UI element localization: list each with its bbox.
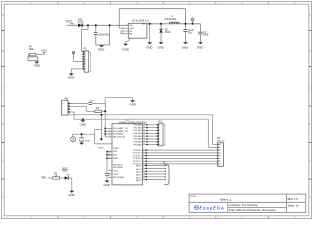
svg-text:NRST: NRST: [113, 158, 119, 160]
svg-text:270uH/1R4: 270uH/1R4: [164, 18, 177, 21]
svg-text:PV0.RA0: PV0.RA0: [133, 124, 142, 127]
svg-text:PV7.RA7: PV7.RA7: [133, 143, 142, 146]
svg-text:14: 14: [143, 126, 145, 128]
svg-text:17: 17: [143, 135, 145, 137]
svg-text:TITLE:: TITLE:: [190, 196, 197, 198]
svg-text:C: C: [2, 86, 4, 90]
svg-text:GND: GND: [157, 46, 163, 50]
svg-text:ADC5: ADC5: [136, 179, 142, 182]
svg-text:ADC2: ADC2: [136, 171, 142, 174]
svg-text:GND: GND: [103, 183, 109, 187]
svg-text:PB4 (SCL): PB4 (SCL): [113, 164, 123, 166]
svg-text:12: 12: [143, 178, 145, 180]
svg-text:5: 5: [123, 30, 124, 32]
svg-text:VCAP: VCAP: [113, 147, 119, 150]
svg-text:VCC: VCC: [66, 20, 73, 24]
svg-text:10uF: 10uF: [203, 34, 209, 37]
svg-text:GND: GND: [80, 122, 86, 126]
svg-text:GND: GND: [99, 148, 104, 150]
svg-text:PD5 (UART_RX): PD5 (UART_RX): [113, 130, 128, 133]
svg-text:VCC: VCC: [107, 151, 112, 153]
svg-text:19: 19: [143, 140, 145, 142]
svg-text:B: B: [2, 49, 4, 53]
svg-text:PV5.RA5: PV5.RA5: [133, 138, 142, 141]
svg-text:PV4.RA4: PV4.RA4: [133, 135, 142, 138]
svg-text:Date: 2021-02-03 Drawn By:: Date: 2021-02-03 Drawn By: eikemerging: [229, 209, 276, 212]
svg-text:GND: GND: [68, 76, 74, 80]
svg-text:PC2.RC2: PC2.RC2: [133, 155, 142, 157]
svg-text:PV6.RA6: PV6.RA6: [133, 141, 142, 144]
svg-text:VSS: VSS: [113, 155, 118, 157]
svg-text:OSC1: OSC1: [113, 170, 119, 172]
svg-text:SS34: SS34: [165, 31, 172, 34]
svg-text:Sheet_1: Sheet_1: [220, 197, 232, 201]
svg-text:GND: GND: [129, 102, 135, 106]
svg-text:VDD: VDD: [113, 151, 118, 153]
svg-text:B: B: [309, 49, 311, 53]
svg-text:E: E: [2, 159, 4, 163]
svg-text:SW: SW: [142, 24, 145, 26]
svg-text:U2 XL1509-5.0: U2 XL1509-5.0: [132, 20, 149, 23]
svg-text:PB7 (SWIM): PB7 (SWIM): [113, 177, 124, 179]
svg-text:PV1.RA1: PV1.RA1: [133, 126, 142, 129]
svg-text:11: 11: [143, 175, 145, 177]
svg-text:A: A: [309, 13, 311, 17]
svg-text:PA1 (OSCIN): PA1 (OSCIN): [113, 136, 125, 139]
svg-text:PC3.RC3: PC3.RC3: [133, 158, 142, 160]
svg-text:18: 18: [143, 138, 145, 140]
svg-text:PC1.RC1: PC1.RC1: [133, 153, 142, 155]
svg-text:A: A: [2, 13, 4, 17]
svg-text:D: D: [2, 122, 4, 126]
svg-text:100uF/50v: 100uF/50v: [98, 33, 110, 36]
svg-text:10: 10: [143, 173, 145, 175]
svg-text:D: D: [309, 122, 311, 126]
svg-text:15: 15: [143, 129, 145, 131]
svg-text:ADC4: ADC4: [136, 176, 142, 179]
svg-text:PB5 (SDA): PB5 (SDA): [113, 166, 123, 169]
svg-text:EasyEDA: EasyEDA: [199, 205, 224, 210]
svg-text:20: 20: [143, 143, 145, 145]
svg-text:GND: GND: [197, 46, 203, 50]
svg-text:GND: GND: [182, 46, 188, 50]
svg-text:OSC2: OSC2: [113, 174, 119, 176]
svg-text:Sheet: 1/1: Sheet: 1/1: [288, 204, 300, 207]
svg-text:PD6 (AIN6): PD6 (AIN6): [113, 133, 124, 136]
svg-text:GND: GND: [34, 64, 40, 68]
svg-text:PB0: PB0: [41, 177, 46, 180]
svg-text:10uF: 10uF: [85, 140, 91, 142]
svg-text:VIN: VIN: [129, 25, 133, 27]
svg-text:PD4 (UART_TX): PD4 (UART_TX): [113, 127, 128, 130]
svg-text:ADC1: ADC1: [136, 168, 142, 171]
svg-text:GND: GND: [68, 193, 74, 197]
svg-text:13: 13: [143, 123, 145, 125]
svg-text:GND: GND: [122, 48, 128, 52]
svg-text:ADC0: ADC0: [136, 164, 142, 167]
svg-text:16: 16: [143, 132, 145, 134]
svg-text:REV: 1.0: REV: 1.0: [288, 198, 299, 201]
svg-text:E: E: [309, 159, 311, 163]
svg-text:ADC3: ADC3: [136, 174, 142, 177]
svg-text:SS34: SS34: [77, 21, 84, 24]
svg-text:100k: 100k: [29, 49, 35, 51]
svg-text:PC4.RC4: PC4.RC4: [133, 161, 142, 163]
svg-text:RED: RED: [63, 171, 68, 173]
svg-text:4: 4: [123, 27, 124, 29]
svg-text:PC0.RC0: PC0.RC0: [133, 150, 142, 152]
svg-text:C: C: [309, 86, 311, 90]
svg-text:3: 3: [123, 32, 124, 34]
svg-text:VCC: VCC: [41, 48, 48, 52]
svg-text:GND: GND: [98, 48, 104, 52]
svg-text:1: 1: [126, 24, 127, 26]
svg-text:H8-2.54: H8-2.54: [217, 140, 225, 142]
svg-text:GND: GND: [106, 155, 111, 157]
svg-text:PV3.RA3: PV3.RA3: [133, 132, 142, 135]
svg-text:GND: GND: [146, 46, 152, 50]
svg-text:GND: GND: [129, 28, 134, 30]
svg-text:PV2.RA2: PV2.RA2: [133, 129, 142, 132]
svg-text:Company: Your Company: Company: Your Company: [229, 204, 258, 207]
